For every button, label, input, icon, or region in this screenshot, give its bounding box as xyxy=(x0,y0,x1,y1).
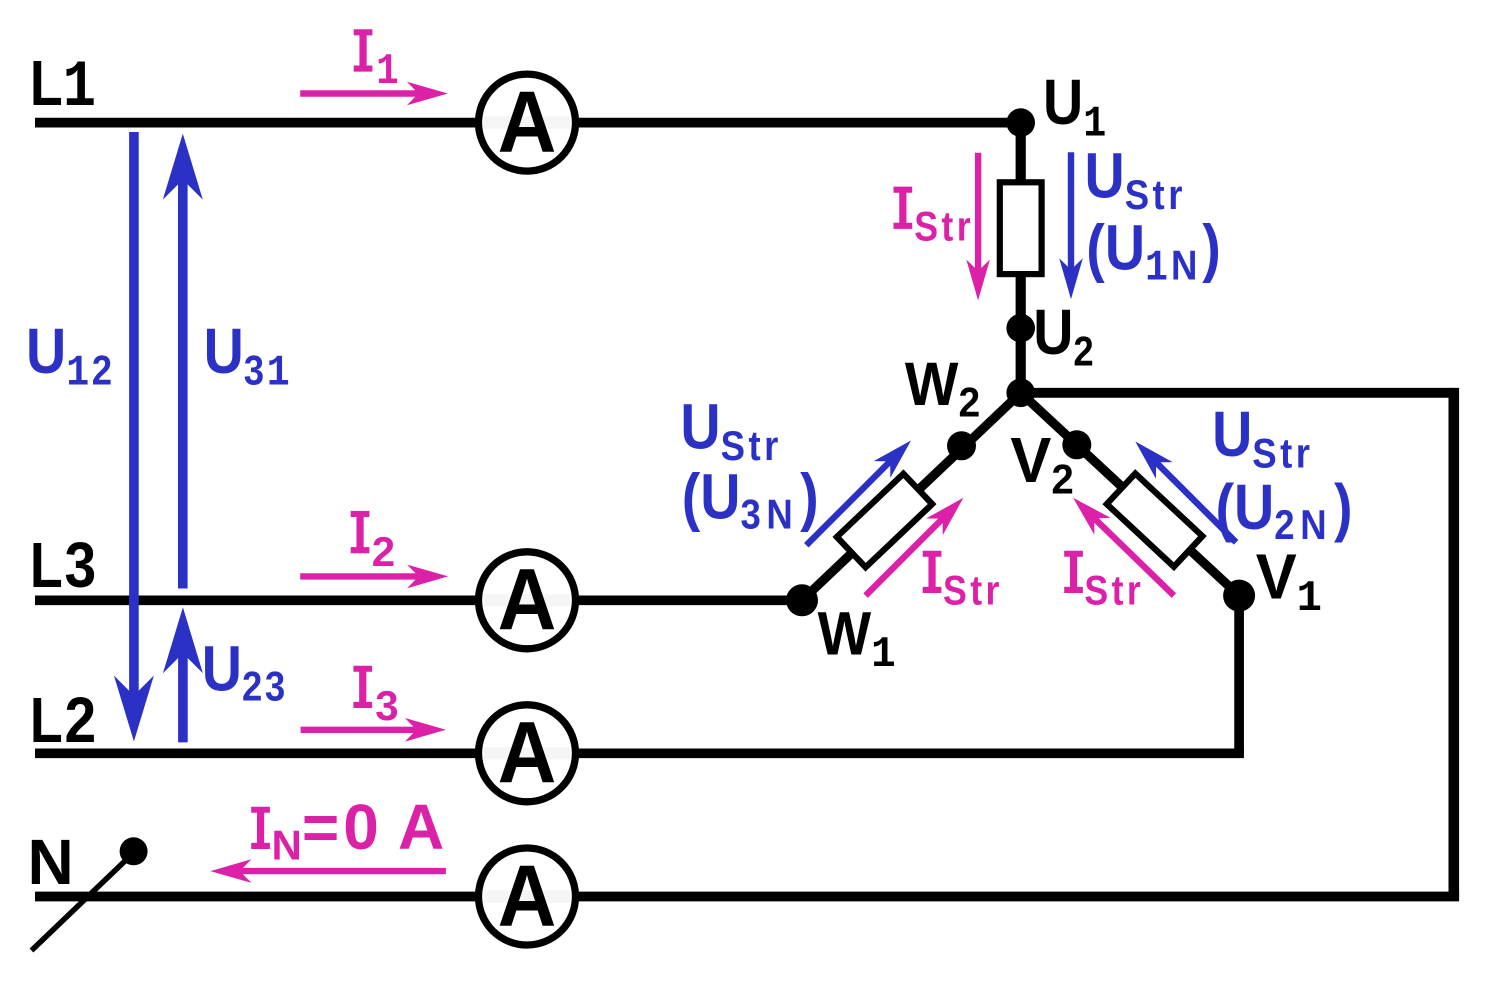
svg-text:3: 3 xyxy=(65,529,97,601)
svg-text:(U2N): (U2N) xyxy=(1216,471,1353,548)
svg-text:A: A xyxy=(398,791,444,863)
svg-text:U31: U31 xyxy=(204,315,293,398)
svg-text:2: 2 xyxy=(65,684,97,756)
svg-text:L: L xyxy=(30,529,63,602)
svg-text:N: N xyxy=(272,822,302,869)
svg-text:U12: U12 xyxy=(26,315,115,398)
svg-text:W2: W2 xyxy=(905,351,980,426)
svg-text:Str: Str xyxy=(943,568,1003,614)
svg-text:UStr: UStr xyxy=(1212,398,1313,477)
svg-text:N: N xyxy=(28,826,74,898)
svg-text:UStr: UStr xyxy=(1085,140,1186,219)
svg-text:U2: U2 xyxy=(1033,296,1094,375)
svg-text:A: A xyxy=(498,704,557,801)
svg-text:=: = xyxy=(302,791,339,863)
svg-text:(U3N): (U3N) xyxy=(682,461,819,538)
svg-text:L: L xyxy=(30,684,63,757)
svg-text:3: 3 xyxy=(375,682,398,729)
svg-text:U1: U1 xyxy=(1043,66,1106,149)
svg-text:Str: Str xyxy=(914,204,974,250)
svg-text:W1: W1 xyxy=(818,601,896,680)
svg-text:1: 1 xyxy=(376,47,398,97)
svg-text:2: 2 xyxy=(372,528,395,575)
svg-text:UStr: UStr xyxy=(680,391,781,470)
svg-text:L1: L1 xyxy=(30,47,96,126)
svg-text:Str: Str xyxy=(1084,568,1144,614)
svg-text:V1: V1 xyxy=(1256,542,1322,624)
svg-text:A: A xyxy=(498,73,557,170)
svg-text:U23: U23 xyxy=(202,633,288,710)
svg-text:(U1N): (U1N) xyxy=(1086,212,1220,293)
svg-text:A: A xyxy=(498,551,557,648)
svg-text:0: 0 xyxy=(343,791,379,863)
svg-text:A: A xyxy=(498,847,557,944)
